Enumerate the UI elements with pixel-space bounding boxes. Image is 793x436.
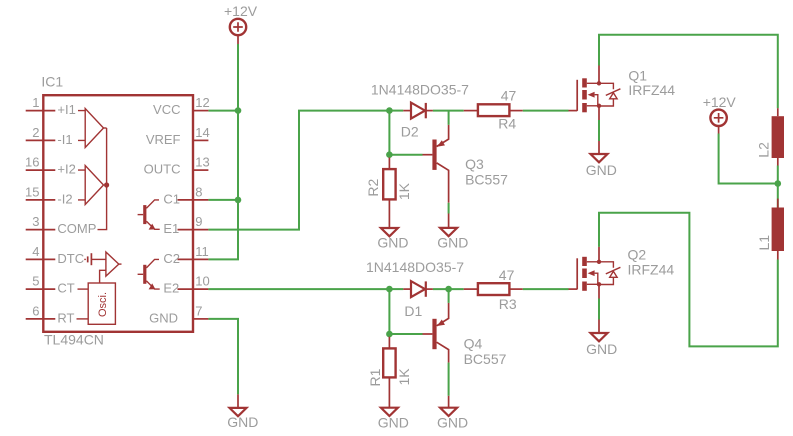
svg-text:C2: C2: [163, 251, 180, 266]
svg-text:1K: 1K: [396, 182, 412, 200]
svg-text:2: 2: [32, 125, 39, 140]
svg-text:E2: E2: [163, 281, 179, 296]
wire D2 anode stub: [389, 110, 403, 112]
wire RT to oscillator: [77, 318, 89, 320]
IC1 pin 10 (E2): [163, 274, 209, 296]
IC U1 TL494CN box: [43, 95, 193, 332]
oscillator Osci. box: [88, 283, 115, 324]
wire E2 net from pin10: [208, 288, 389, 290]
svg-text:Q4: Q4: [464, 335, 483, 351]
ground GND (IC pin7 net): [230, 394, 247, 416]
wire D1 anode stub: [389, 288, 403, 290]
transistor Q4 BC557 (PNP): [423, 303, 449, 363]
svg-text:GND: GND: [377, 235, 408, 251]
svg-text:D2: D2: [401, 124, 419, 140]
svg-text:6: 6: [32, 303, 39, 318]
IC1 pin 15 (-I2): [25, 184, 73, 206]
IC1 pin 13 (OUTC): [144, 155, 210, 177]
junction D1 anode node: [386, 286, 393, 293]
svg-text:RT: RT: [57, 311, 74, 326]
wire pin8 C1 to vertical: [208, 199, 238, 201]
svg-text:13: 13: [195, 155, 209, 170]
inductor L1: [772, 184, 784, 260]
svg-text:15: 15: [25, 184, 39, 199]
wire branch down to R1/Q4 base node: [388, 289, 390, 334]
svg-text:VREF: VREF: [146, 132, 181, 147]
IC1 pin 11 (C2): [163, 244, 208, 266]
svg-text:R4: R4: [498, 115, 516, 131]
svg-text:TL494CN: TL494CN: [44, 332, 104, 348]
wire Q3 collector to ground: [448, 203, 450, 214]
svg-text:7: 7: [195, 303, 202, 318]
svg-text:9: 9: [195, 214, 202, 229]
IC1 pin 6 (RT): [26, 303, 75, 325]
transistor Q1 IRFZ44 (N-MOSFET): [569, 66, 621, 121]
supply +12V P1 symbol: [230, 19, 246, 44]
ground GND (R2): [381, 228, 398, 236]
svg-text:1: 1: [32, 95, 39, 110]
svg-text:5: 5: [32, 274, 39, 289]
svg-text:GND: GND: [586, 162, 617, 178]
svg-text:+I1: +I1: [57, 102, 75, 117]
wire +12V P2 to L1/L2 junction: [719, 134, 778, 184]
wire base node to Q4: [389, 333, 422, 335]
svg-text:L2: L2: [755, 142, 771, 158]
svg-text:47: 47: [501, 88, 517, 104]
IC1 pin 14 (VREF): [146, 125, 210, 147]
svg-text:GND: GND: [149, 311, 178, 326]
junction Q4 emitter node: [445, 286, 452, 293]
svg-text:IRFZ44: IRFZ44: [628, 82, 675, 98]
svg-text:Q2: Q2: [628, 247, 647, 263]
junction VCC net at pin12 row: [235, 107, 242, 114]
IC1 pin 2 (-I1): [26, 125, 73, 147]
IC1 pin 4 (DTC): [26, 244, 84, 266]
wire L1 bottom to Q2 drain: [599, 213, 778, 347]
wire base node to Q3: [389, 154, 422, 156]
wire L2 bottom to junction: [777, 166, 779, 184]
svg-text:3: 3: [32, 214, 39, 229]
junction L1/L2/+12V node: [775, 180, 782, 187]
diode D1 1N4148: [403, 281, 433, 297]
wire R4 to Q1 gate: [523, 110, 569, 112]
svg-text:11: 11: [195, 244, 209, 259]
wire Q3 emitter to D2 cathode net: [448, 111, 450, 125]
IC1 pin 5 (CT): [26, 274, 75, 296]
wire branch down to R2/Q3 base node: [388, 111, 390, 155]
svg-text:47: 47: [499, 267, 515, 283]
junction D2 anode node: [386, 107, 393, 114]
IC1 pin 1 (+I1): [26, 95, 76, 117]
svg-text:-I1: -I1: [57, 132, 72, 147]
ground GND (Q1 source): [591, 141, 608, 162]
wire internal output bus to COMP: [98, 128, 107, 230]
wire Q2 source to ground: [598, 299, 600, 320]
wire Q1 source to ground: [598, 120, 600, 141]
svg-text:12: 12: [195, 95, 209, 110]
capacitor DTC input: [84, 253, 106, 265]
svg-text:+12V: +12V: [224, 3, 258, 19]
svg-text:R1: R1: [367, 368, 383, 386]
svg-text:R2: R2: [365, 178, 381, 196]
svg-text:BC557: BC557: [465, 172, 508, 188]
wire R3 to Q2 gate: [523, 288, 569, 290]
wire E1 net from pin9 up to top row: [208, 111, 389, 230]
junction VCC net at pin8 row: [235, 197, 242, 204]
svg-text:1N4148DO35-7: 1N4148DO35-7: [371, 81, 469, 97]
svg-text:IC1: IC1: [41, 74, 63, 90]
junction Q3 base node: [386, 151, 393, 158]
svg-text:GND: GND: [437, 235, 468, 251]
svg-text:E1: E1: [163, 221, 179, 236]
transistor Q3 BC557 (PNP): [423, 125, 449, 203]
resistor R4 47: [464, 104, 523, 116]
svg-text:L1: L1: [756, 235, 772, 251]
svg-text:GND: GND: [586, 341, 617, 357]
ground GND (Q3): [440, 214, 457, 237]
ground GND (Q2 source): [591, 320, 608, 342]
resistor R1 1K: [383, 337, 395, 408]
junction Q4 base node: [386, 331, 393, 338]
svg-text:16: 16: [25, 155, 39, 170]
resistor R3 47: [464, 283, 523, 295]
svg-text:-I2: -I2: [57, 192, 72, 207]
svg-text:DTC: DTC: [57, 251, 84, 266]
resistor R2 1K: [383, 158, 395, 229]
svg-text:Q3: Q3: [465, 156, 484, 172]
op-amp error amp 1 inside IC1: [78, 109, 107, 148]
svg-text:IRFZ44: IRFZ44: [628, 262, 675, 278]
wire D2 cathode to R4: [433, 110, 464, 112]
op-amp dead-time comparator: [106, 252, 122, 276]
transistor Q2 IRFZ44 (N-MOSFET): [569, 247, 621, 299]
wire GND net from pin7: [208, 319, 238, 395]
svg-text:C1: C1: [163, 192, 180, 207]
transistor internal output 1 (C1/E1): [138, 200, 160, 230]
svg-text:+I2: +I2: [57, 162, 75, 177]
IC1 pin 7 (GND): [149, 303, 208, 325]
wire Q1 drain rail to L2: [599, 35, 778, 109]
op-amp error amp 2 inside IC1: [78, 166, 104, 205]
wire Q4 emitter to D1 cathode node: [448, 289, 450, 303]
svg-text:BC557: BC557: [464, 351, 507, 367]
svg-text:GND: GND: [437, 415, 468, 431]
wire Q4 collector to ground: [448, 363, 450, 396]
svg-text:D1: D1: [404, 303, 422, 319]
svg-text:OUTC: OUTC: [144, 162, 181, 177]
IC1 pin 9 (E1): [163, 214, 208, 236]
svg-text:Osci.: Osci.: [97, 292, 109, 317]
junction internal bus (red dot): [104, 182, 109, 187]
svg-text:8: 8: [195, 184, 202, 199]
svg-text:COMP: COMP: [57, 221, 96, 236]
inductor L2: [772, 108, 784, 165]
ground GND (R1): [381, 408, 398, 416]
svg-text:4: 4: [32, 244, 39, 259]
wire CT to oscillator: [78, 288, 89, 290]
svg-text:R3: R3: [499, 296, 517, 312]
supply +12V P2 symbol: [710, 110, 726, 134]
svg-text:+12V: +12V: [703, 94, 737, 110]
svg-text:VCC: VCC: [153, 102, 180, 117]
IC1 pin 8 (C1): [163, 184, 208, 206]
svg-text:1K: 1K: [396, 368, 412, 386]
wire pin12 VCC to vertical: [208, 110, 238, 112]
wire net VCC vertical (+12V to VCC/C1/C2): [208, 44, 238, 259]
ground GND (Q4): [440, 396, 457, 416]
svg-text:GND: GND: [378, 415, 409, 431]
svg-text:CT: CT: [57, 281, 74, 296]
svg-text:10: 10: [195, 274, 209, 289]
svg-text:GND: GND: [227, 414, 258, 430]
svg-text:14: 14: [195, 125, 209, 140]
IC1 pin 12 (VCC): [153, 95, 210, 117]
svg-text:1N4148DO35-7: 1N4148DO35-7: [366, 259, 464, 275]
IC1 pin 16 (+I2): [25, 155, 76, 177]
diode D2 1N4148: [403, 103, 433, 119]
IC1 pin 3 (COMP): [26, 214, 97, 236]
transistor internal output 2 (C2/E2): [138, 259, 160, 289]
wire dead-time to oscillator: [100, 270, 106, 283]
wire D1 cathode to R3: [433, 288, 464, 290]
